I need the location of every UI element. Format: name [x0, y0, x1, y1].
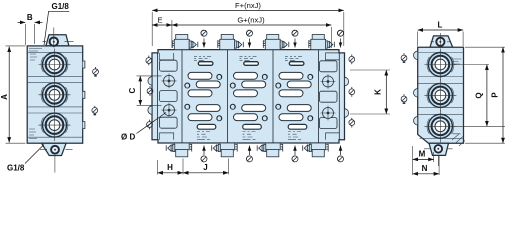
- hatch marks bottom right (right view): [452, 134, 465, 146]
- svg-text:K: K: [374, 89, 383, 95]
- dimension C extension lines: [137, 76, 162, 105]
- dimension A extension ticks: [6, 46, 26, 143]
- station 1 screw d: [217, 116, 222, 121]
- right plate boss upper: [319, 61, 337, 72]
- port circle 2 (right view): [424, 79, 456, 111]
- rotated diameter callout left c: [147, 120, 153, 130]
- station 3 screw b: [276, 83, 281, 88]
- dimension P extension lines: [465, 47, 505, 143]
- body (right view) with chamfer: [418, 47, 464, 143]
- diameter D leader: [137, 113, 167, 134]
- right plate boss lower: [319, 118, 337, 129]
- body seam lines (left view): [27, 52, 82, 137]
- port circle 3 (right view): [424, 110, 456, 142]
- svg-text:G+(nxJ): G+(nxJ): [237, 16, 265, 25]
- dimension H extension lines: [158, 159, 229, 175]
- bottom callout circle 2 with arrow: [247, 146, 253, 162]
- port circle 1 (right view): [424, 49, 456, 81]
- rotated diameter callout left b: [147, 86, 153, 96]
- station 2 screw b: [230, 83, 235, 88]
- dimension Q extension line bottom: [453, 125, 505, 127]
- bottom port block 2: [212, 143, 238, 157]
- boss arcs (right view circles): [427, 57, 454, 134]
- station 1 slot row1: [188, 72, 212, 79]
- station 3 face label bottom: [288, 132, 301, 140]
- G1/8 top leader: [44, 11, 69, 45]
- bottom port block 4: [303, 143, 329, 157]
- callout glyph right of left view (upper): [93, 67, 99, 76]
- station 3 slot row1: [279, 72, 303, 79]
- boss arcs (left view circles): [41, 57, 68, 133]
- dimension H line: [158, 172, 184, 174]
- top ear (right view): [430, 36, 453, 47]
- station 2 slot row5: [234, 114, 258, 121]
- station 1 face label top: [194, 57, 211, 61]
- right end plate bump upper: [345, 77, 349, 86]
- callout glyph left of right view (lower): [401, 94, 407, 104]
- svg-text:B: B: [27, 13, 33, 22]
- right side callout c: [349, 118, 355, 128]
- station 1 face label bottom: [197, 132, 210, 140]
- station 1 small bottom slot: [197, 124, 216, 129]
- body seam lines (right view): [418, 53, 464, 139]
- top callout circle 1 with arrow: [201, 30, 207, 47]
- station 1 screw c: [185, 104, 190, 109]
- callout glyph right of left view (lower): [92, 106, 98, 115]
- bottom callout circle 1 with arrow: [201, 146, 207, 162]
- bottom ear (right view): [429, 143, 449, 155]
- station 3 slot row4: [287, 105, 311, 112]
- body (left view): [27, 46, 82, 143]
- right side callout b: [349, 87, 355, 97]
- right side callout a: [349, 54, 355, 64]
- dimension A line: [8, 47, 10, 143]
- dimension L line: [418, 29, 463, 31]
- dimension M line: [413, 158, 434, 160]
- dimension N line: [413, 173, 440, 175]
- dimension N extension line: [438, 156, 440, 175]
- station 2 screw a: [262, 74, 267, 79]
- rotated diameter callout left a: [146, 56, 152, 66]
- station divider lines: [182, 50, 319, 143]
- station 1 screw b: [185, 83, 190, 88]
- bottom port block 3: [257, 143, 283, 157]
- top callout circle 4 with arrow: [338, 30, 344, 47]
- bottom callout circle 3 with arrow: [292, 146, 298, 162]
- label marks top-left (left view): [29, 49, 42, 61]
- end plate inner wall lines: [158, 53, 340, 140]
- top callout circle 3 with arrow: [292, 30, 298, 47]
- left plate boss upper: [160, 60, 178, 71]
- station 2 slot row4: [242, 105, 266, 112]
- station 3 screw d: [308, 116, 313, 121]
- right edge tabs (left view): [83, 61, 85, 129]
- station 3 small top slot: [289, 62, 304, 66]
- station 1 slot row2: [196, 81, 220, 88]
- manifold main body (middle view): [152, 50, 345, 143]
- left end plate bump upper: [148, 77, 152, 86]
- svg-text:G1/8: G1/8: [52, 2, 70, 11]
- station 1 screw a: [217, 74, 222, 79]
- top ear hole: [50, 38, 58, 46]
- dimension P line: [502, 47, 504, 143]
- dimension C line: [139, 76, 141, 105]
- right plate boss middle: [319, 91, 337, 102]
- station 3 slot row5: [279, 114, 303, 121]
- G1/8 bottom leader: [25, 145, 44, 164]
- left end plate port lower: [162, 103, 177, 118]
- svg-text:A: A: [0, 94, 9, 100]
- valve top block 4: [309, 35, 335, 50]
- dimension G+(nxJ) extension lines: [172, 20, 331, 48]
- bottom ear hole: [51, 146, 59, 154]
- dimension B extension lines: [26, 24, 35, 45]
- station 2 screw c: [230, 104, 235, 109]
- station 1 slot row5: [188, 114, 212, 121]
- dimension J line: [183, 172, 229, 174]
- station 1 small top slot: [198, 62, 213, 66]
- svg-text:N: N: [422, 164, 428, 173]
- dimension L extension lines: [418, 32, 463, 47]
- left plate boss lower: [160, 117, 178, 128]
- bottom ear hole (right view): [435, 145, 443, 153]
- right end plate port upper: [321, 74, 336, 89]
- station 1 slot row4: [196, 105, 220, 112]
- dimension F+(nxJ) line: [152, 9, 344, 11]
- station 2 face label bottom: [243, 132, 256, 140]
- dimension Q extension line top: [453, 64, 489, 66]
- valve top block 1: [172, 35, 198, 50]
- svg-text:H: H: [167, 163, 173, 172]
- station 3 small bottom slot: [288, 124, 307, 129]
- svg-text:G1/8: G1/8: [7, 164, 25, 173]
- label marks right of circle1 (right view): [453, 59, 462, 64]
- top callout circle 2 with arrow: [247, 30, 253, 47]
- svg-text:J: J: [203, 163, 207, 172]
- station 1 slot row3: [188, 90, 212, 97]
- dimension B line with outside arrows: [18, 21, 26, 23]
- top ear (left view): [46, 35, 69, 46]
- station 2 slot row3: [234, 90, 258, 97]
- right end plate port lower: [321, 106, 336, 121]
- station 2 small bottom slot: [243, 124, 262, 129]
- bottom ear hole crosshair: [40, 149, 73, 172]
- left plate boss middle: [160, 91, 178, 102]
- station 3 screw a: [308, 74, 313, 79]
- right end plate bump lower: [345, 109, 349, 118]
- port circle 1 (left view): [39, 49, 71, 81]
- valve top block 2: [218, 35, 244, 50]
- svg-text:E: E: [157, 16, 162, 25]
- svg-text:C: C: [128, 87, 137, 93]
- dimension G+(nxJ) line: [172, 24, 331, 26]
- bottom ear hole dash: [424, 149, 453, 166]
- station 2 screw d: [262, 116, 267, 121]
- station 2 slot row1: [234, 72, 258, 79]
- station 3 screw c: [276, 104, 281, 109]
- port circle 3 (left view): [39, 109, 71, 141]
- dimension F+(nxJ) extension lines: [152, 12, 344, 46]
- end plate step bosses: [159, 53, 339, 140]
- dimension M extension lines: [413, 146, 434, 175]
- left edge bumps (right view): [414, 51, 418, 125]
- dimension E line: [152, 24, 172, 26]
- left end plate port upper: [162, 74, 177, 89]
- dimension Q line: [486, 65, 488, 127]
- dimension K line: [385, 70, 387, 114]
- dimension K extension lines: [350, 70, 390, 114]
- station 2 face label top: [240, 57, 257, 61]
- station 3 slot row2: [287, 81, 311, 88]
- svg-text:L: L: [438, 21, 443, 30]
- svg-text:F+(nxJ): F+(nxJ): [235, 1, 261, 10]
- valve top block 3: [263, 35, 289, 50]
- top ear hole (right view): [436, 38, 444, 46]
- svg-text:P: P: [491, 92, 500, 98]
- station 3 face label top: [285, 57, 302, 61]
- bottom port block 1: [166, 143, 192, 157]
- bottom ear (left view): [42, 143, 67, 155]
- station 2 small top slot: [244, 62, 259, 66]
- station 3 slot row3: [279, 90, 303, 97]
- svg-text:Ø D: Ø D: [121, 133, 135, 142]
- svg-text:Q: Q: [475, 92, 484, 98]
- port circle 2 (left view): [39, 79, 71, 111]
- station 2 slot row2: [242, 81, 266, 88]
- callout glyph left of right view (upper): [401, 53, 407, 63]
- bottom callout circle 4 with arrow: [338, 146, 344, 162]
- svg-text:M: M: [419, 150, 426, 159]
- label marks bottom-left (left view): [29, 129, 37, 139]
- left end plate bump lower: [148, 106, 152, 115]
